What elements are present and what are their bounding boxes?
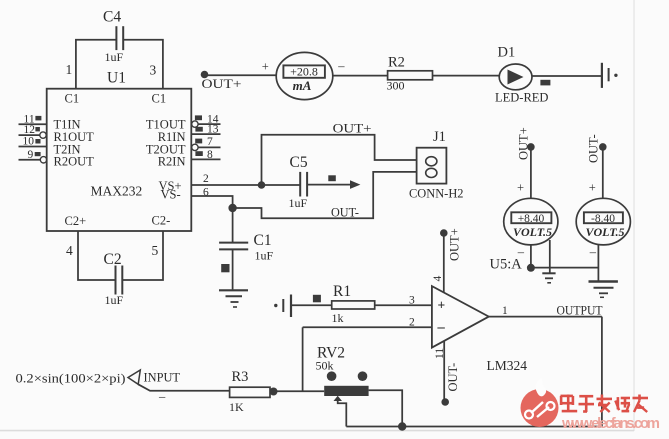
node junction [398, 422, 406, 430]
wire [375, 304, 432, 306]
capacitor C4 [103, 9, 124, 65]
resistor R1 [332, 283, 375, 325]
svg-text:CONN-H2: CONN-H2 [409, 186, 464, 201]
wire feedback [302, 327, 304, 391]
svg-text:OUT+: OUT+ [333, 121, 372, 136]
power cell terminal [602, 63, 618, 88]
node OUT- label [331, 205, 359, 220]
watermark logo [521, 378, 559, 427]
svg-text:1uF: 1uF [105, 293, 124, 307]
svg-text:–: – [158, 390, 166, 404]
polarity - [517, 245, 525, 259]
pin 4 [432, 276, 444, 282]
wire [597, 244, 599, 281]
svg-text:R1: R1 [333, 283, 351, 300]
svg-text:C2+: C2+ [65, 214, 87, 228]
polarity mark [328, 175, 336, 181]
svg-text:+: + [262, 60, 269, 74]
pin 10 (T2IN) [19, 136, 47, 148]
ground [219, 290, 248, 307]
svg-text:1: 1 [66, 62, 73, 77]
wire VS+ [191, 184, 300, 186]
svg-text:C4: C4 [103, 9, 121, 26]
svg-text:9: 9 [28, 149, 34, 161]
pin 3 [409, 295, 415, 307]
svg-text:VS-: VS- [161, 188, 181, 202]
ground [589, 282, 618, 298]
capacitor C5 [289, 154, 308, 210]
pin 12 (R1OUT) [19, 124, 47, 138]
svg-text:+8.40: +8.40 [518, 213, 545, 225]
ground [542, 273, 555, 283]
svg-text:C2-: C2- [152, 214, 171, 228]
pin 11 [434, 348, 446, 359]
wire [270, 390, 324, 392]
svg-text:+: + [589, 181, 596, 195]
pin 11 wire [443, 341, 445, 402]
svg-text:1uF: 1uF [289, 196, 308, 210]
svg-text:LM324: LM324 [487, 358, 528, 373]
pin 11 (T1IN) [19, 113, 47, 125]
svg-text:–: – [337, 59, 345, 73]
svg-text:10: 10 [23, 136, 35, 148]
polarity + [517, 181, 524, 195]
svg-text:OUTPUT: OUTPUT [557, 303, 603, 318]
svg-text:+: + [517, 181, 524, 195]
ammeter +20.8 mA [276, 52, 333, 99]
polarity mark [221, 264, 229, 272]
pin 1 [66, 62, 73, 77]
node OUT+ [201, 71, 242, 91]
svg-text:–: – [437, 320, 446, 336]
svg-text:4: 4 [432, 276, 444, 282]
wire [138, 384, 229, 391]
potentiometer RV2 50k [316, 345, 369, 402]
wire [530, 147, 532, 199]
svg-text:D1: D1 [498, 45, 516, 61]
svg-text:50k: 50k [316, 359, 334, 373]
svg-text:C5: C5 [290, 154, 308, 171]
svg-text:-8.40: -8.40 [591, 213, 615, 225]
svg-text:R2OUT: R2OUT [54, 154, 95, 168]
pin 2 [203, 173, 209, 185]
connector J1 CONN-H2 [409, 129, 464, 201]
svg-text:1uF: 1uF [105, 50, 124, 64]
node OUT- [587, 134, 607, 163]
capacitor C1 [219, 232, 273, 263]
wire [78, 231, 115, 280]
polarity - [589, 245, 597, 259]
wire [602, 147, 604, 199]
svg-text:8: 8 [207, 149, 213, 161]
svg-text:7: 7 [207, 136, 213, 148]
svg-text:OUT-: OUT- [331, 205, 359, 220]
node junction [228, 204, 236, 212]
node OUT+ [440, 228, 462, 261]
wire OUT+ rail [262, 135, 417, 185]
pin 1 [502, 305, 508, 317]
svg-text:U5:A: U5:A [490, 256, 523, 272]
svg-text:OUT-: OUT- [446, 363, 460, 392]
svg-text:C1: C1 [152, 92, 167, 106]
wire [124, 40, 163, 89]
svg-text:–: – [589, 245, 597, 259]
svg-text:C1: C1 [254, 232, 272, 249]
node OUT- [441, 363, 460, 406]
pin 8 (R2IN) [191, 149, 220, 161]
svg-text:U1: U1 [107, 70, 126, 87]
svg-text:2: 2 [409, 317, 415, 329]
svg-text:www.elecfans.com: www.elecfans.com [561, 415, 660, 432]
wire [205, 74, 277, 76]
pin 2 [409, 317, 415, 329]
resistor R3 [229, 369, 270, 414]
svg-text:OUT+: OUT+ [448, 228, 462, 261]
svg-text:11: 11 [434, 348, 446, 359]
svg-text:LED-RED: LED-RED [495, 91, 548, 105]
wire [233, 172, 417, 218]
IC U1 MAX232 [47, 70, 192, 232]
wire with arrow [307, 180, 360, 189]
svg-text:INPUT: INPUT [144, 370, 181, 385]
wire [531, 267, 599, 269]
wire [369, 390, 403, 426]
node INPUT source [16, 370, 181, 386]
node U5:A junction [490, 256, 535, 272]
node junction [258, 181, 266, 189]
polarity - [337, 59, 345, 73]
polarity + [262, 60, 269, 74]
svg-text:OUT-: OUT- [587, 134, 601, 163]
svg-text:+: + [438, 298, 446, 313]
svg-text:MAX232: MAX232 [91, 183, 143, 198]
wire [333, 75, 388, 77]
wire wiper [338, 399, 347, 427]
capacitor C2 [104, 251, 124, 307]
svg-text:12: 12 [24, 124, 36, 136]
svg-text:4: 4 [66, 243, 73, 258]
voltmeter -8.40 VOLT.5 [576, 198, 630, 245]
pin 1 / OUTPUT wire [489, 316, 602, 318]
pin 13 (R1IN) [191, 123, 220, 135]
wire [232, 208, 234, 242]
pin 5 [152, 243, 159, 258]
wire [291, 304, 332, 306]
svg-text:OUT+: OUT+ [517, 127, 531, 160]
svg-text:3: 3 [150, 63, 157, 78]
polarity - [158, 390, 166, 404]
node junction [270, 388, 278, 396]
svg-text:2: 2 [203, 173, 209, 185]
svg-text:C1: C1 [65, 92, 80, 106]
svg-text:300: 300 [387, 79, 405, 93]
svg-text:1K: 1K [229, 400, 244, 414]
node OUT+ label [333, 121, 372, 136]
wire VS- [191, 196, 232, 208]
power cell terminal [274, 295, 291, 318]
pin 6 [203, 186, 209, 198]
op-amp U5:A LM324 [432, 286, 527, 373]
svg-text:3: 3 [409, 295, 415, 307]
svg-text:1: 1 [502, 305, 508, 317]
polarity mark [313, 295, 321, 303]
svg-text:13: 13 [207, 123, 219, 135]
polarity + [589, 181, 596, 195]
watermark text [561, 395, 661, 433]
svg-text:5: 5 [152, 243, 159, 258]
pin 2 wire [303, 326, 432, 328]
svg-text:1k: 1k [332, 311, 344, 325]
pin 4 wire [443, 233, 445, 293]
polarity mark [540, 80, 550, 86]
LED D1 LED-RED [495, 45, 548, 105]
wire [433, 75, 500, 77]
svg-text:R2: R2 [388, 55, 405, 71]
svg-text:VOLT.5: VOLT.5 [513, 225, 552, 239]
pin 14 (T1OUT) [192, 113, 221, 127]
wire [532, 75, 602, 77]
svg-text:1uF: 1uF [255, 249, 274, 263]
pin 9 (R2OUT) [19, 149, 47, 163]
wire [530, 245, 532, 268]
wire [549, 240, 551, 273]
wire [123, 231, 163, 280]
pin 4 [66, 243, 73, 258]
wire [346, 317, 602, 427]
resistor R2 [387, 55, 433, 93]
svg-text:R3: R3 [232, 369, 249, 385]
svg-text:mA: mA [293, 78, 312, 93]
svg-text:R2IN: R2IN [158, 154, 186, 168]
svg-text:VOLT.5: VOLT.5 [585, 225, 624, 239]
node OUT+ [517, 127, 535, 160]
svg-text:0.2×sin(100×2×pi): 0.2×sin(100×2×pi) [16, 372, 126, 386]
svg-text:C2: C2 [104, 251, 122, 268]
voltmeter +8.40 VOLT.5 [504, 198, 558, 245]
svg-text:OUT+: OUT+ [202, 76, 242, 91]
svg-text:J1: J1 [433, 129, 446, 145]
pin 3 [150, 63, 157, 78]
pin 7 (T2OUT) [192, 136, 221, 151]
wire [76, 40, 116, 89]
node OUTPUT [557, 303, 603, 318]
svg-text:+20.8: +20.8 [290, 65, 318, 79]
wire [232, 249, 234, 289]
